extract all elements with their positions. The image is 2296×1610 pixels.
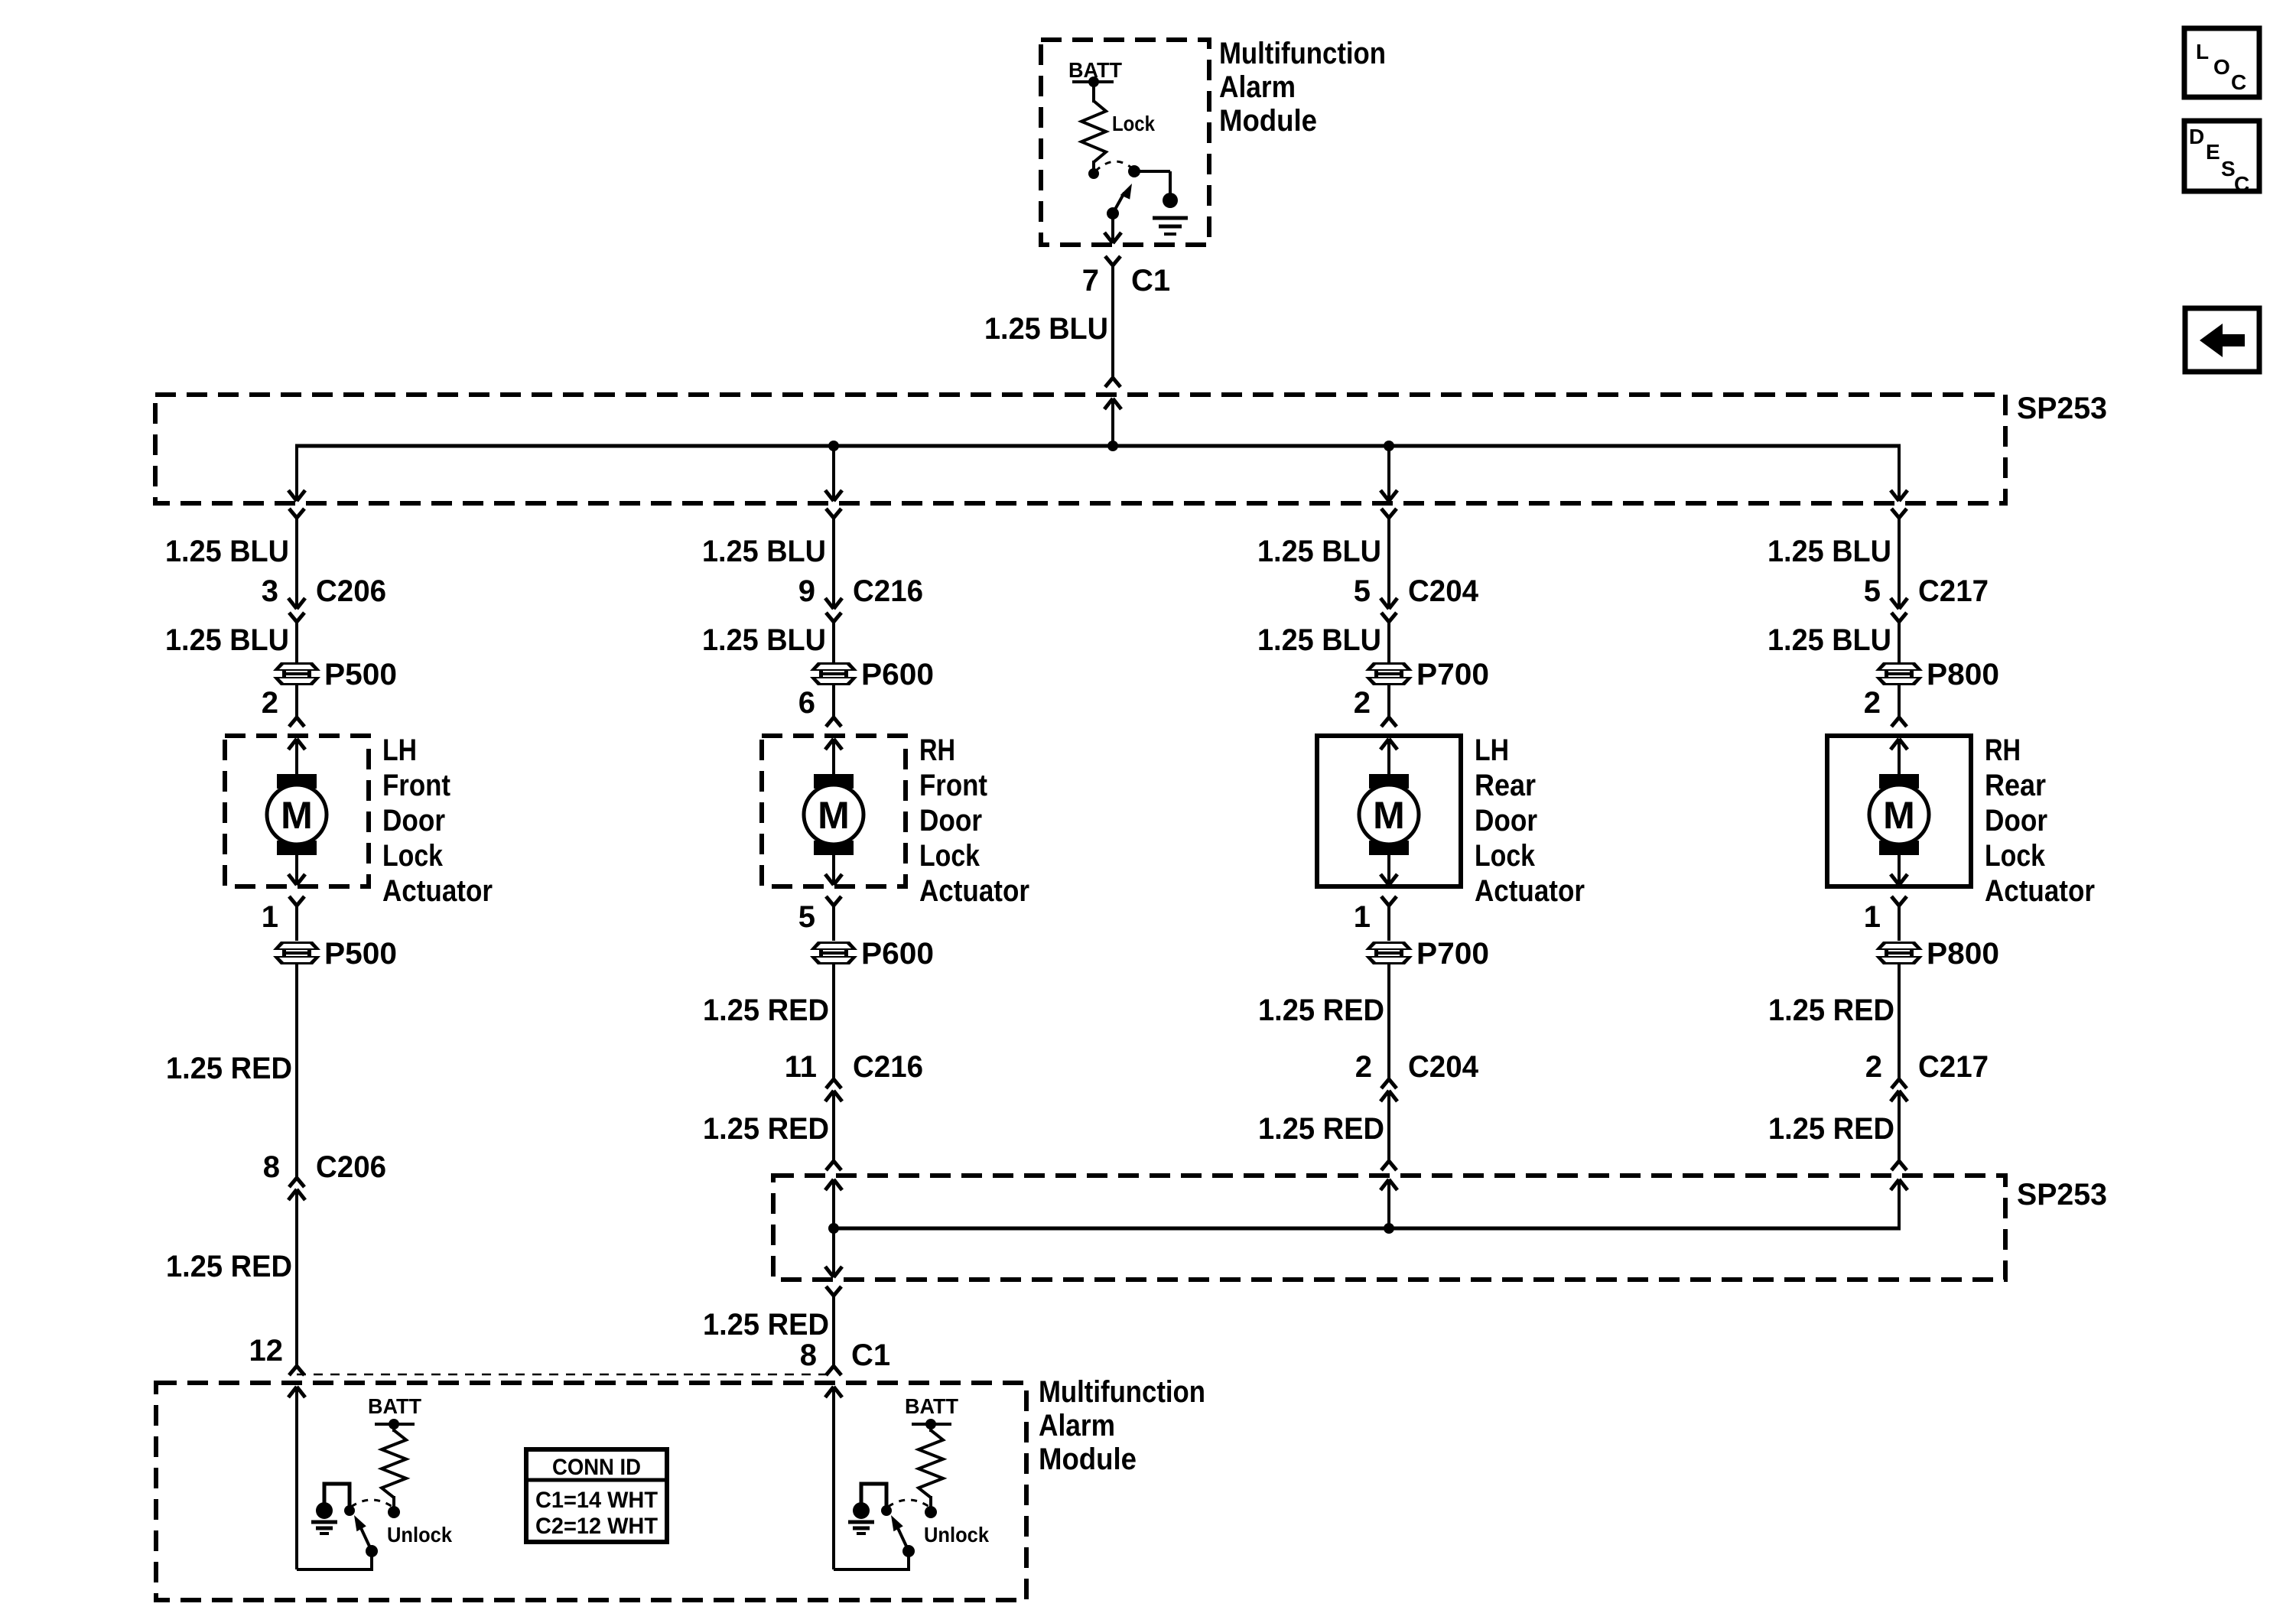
label 1.25 BLU (C217 upper) [1768,535,1891,568]
svg-text:Alarm: Alarm [1039,1409,1115,1442]
svg-text:P700: P700 [1416,658,1489,691]
svg-text:C1=14 WHT: C1=14 WHT [535,1488,658,1513]
chevron below SP253 bottom [826,1286,841,1296]
svg-text:P600: P600 [861,937,934,971]
wire 1.25 RED (C206 upper) [295,964,298,1178]
label 1.25 RED (C204 upper) [1258,994,1384,1027]
wire: top bus to exit (C216 branch) [832,446,835,501]
chevron below SP253 (C216 branch) [826,509,841,518]
wire to door lock actuator (P600) [832,685,835,717]
junction on bottom bus (C204) [1384,1223,1394,1234]
inline connector C206 pin 3 [262,574,386,622]
pin label 2 (motor top) [1864,686,1881,720]
svg-text:1.25 RED: 1.25 RED [1768,994,1894,1027]
chevron into actuator box (P700) [1381,717,1397,727]
inline connector C204 pin 5 [1354,574,1479,622]
pin label 1 (motor bottom) [1354,900,1371,934]
arrow inside actuator box top (P500) [288,739,305,776]
chevron below actuator box (P700) [1381,896,1397,906]
svg-text:P800: P800 [1927,658,1999,691]
svg-text:Actuator: Actuator [382,874,493,908]
chevron into actuator box (P500) [289,717,304,727]
svg-text:1.25 BLU: 1.25 BLU [1257,623,1381,657]
svg-text:12: 12 [249,1334,284,1368]
svg-text:S: S [2221,157,2236,181]
dashed actuation link (right) [888,1500,929,1507]
wire 1.25 BLU lower (C217) [1898,622,1901,663]
chevron into bottom module (pin 8) [826,1366,841,1375]
splice box SP253 (bottom) [773,1176,2005,1280]
wire inside actuator box bottom (P500) [288,855,305,885]
wire: top bus to exit (C204 branch) [1387,446,1390,501]
label: Multifunction Alarm Module (bottom) [1039,1375,1205,1476]
label 1.25 BLU (C217 lower) [1768,623,1891,657]
wire 1.25 RED (C216 upper) [832,964,835,1079]
svg-text:1.25 RED: 1.25 RED [1768,1112,1894,1146]
svg-text:1: 1 [262,900,278,934]
CONN ID table [526,1449,667,1542]
label 1.25 BLU (C216 upper) [702,535,826,568]
arrow inside bottom module (pin 8) [825,1387,842,1569]
svg-text:Multifunction: Multifunction [1039,1375,1205,1409]
wire motor to grommet (P800) [1898,906,1901,941]
svg-text:8: 8 [263,1150,280,1184]
inline connector C216 pin 11 [785,1050,923,1101]
label SP253 (top) [2017,392,2107,425]
chevron below SP253 (C217 branch) [1891,509,1907,518]
resistor Unlock coil (right) [912,1419,951,1518]
bus wire SP253 (bottom) [832,1227,1901,1231]
svg-text:Module: Module [1219,104,1317,138]
label SP253 (bottom) [2017,1178,2107,1212]
svg-text:C204: C204 [1408,1050,1479,1084]
svg-text:6: 6 [798,686,815,720]
grommet P500 (lower) [273,937,397,971]
label 1.25 RED (C216 lower) [703,1112,829,1146]
svg-text:Lock: Lock [919,839,981,873]
chevron into bottom module (pin 12) [289,1366,304,1375]
wire 1.25 BLU lower (C206) [295,622,298,663]
svg-text:E: E [2206,140,2220,164]
svg-text:O: O [2213,55,2230,79]
icon box back-arrow [2185,308,2259,372]
svg-text:C204: C204 [1408,574,1479,608]
label 1.25 RED (C217 upper) [1768,994,1894,1027]
label 1.25 BLU (C206 lower) [165,623,289,657]
motor M (LH Rear) [1359,774,1419,855]
svg-text:5: 5 [1354,574,1371,608]
svg-text:5: 5 [798,900,815,934]
svg-text:Lock: Lock [1985,839,2046,873]
wire 1.25 BLU upper (C206) [295,518,298,609]
svg-text:2: 2 [1354,686,1371,720]
label 1.25 BLU (C204 upper) [1257,535,1381,568]
svg-text:Unlock: Unlock [924,1523,989,1547]
svg-text:Actuator: Actuator [1985,874,2095,908]
svg-text:SP253: SP253 [2017,392,2107,425]
svg-text:C217: C217 [1918,574,1989,608]
svg-text:P500: P500 [324,658,397,691]
svg-text:Rear: Rear [1985,769,2046,802]
wire to unlock switch (right) [834,1552,909,1571]
svg-text:C1: C1 [1131,264,1170,298]
wire 1.25 RED (C206 lower) [295,1189,298,1366]
label 1.25 RED (C206 lower) [166,1250,292,1283]
arrow out of SP253 (C217 branch) [1891,490,1907,501]
svg-text:3: 3 [262,574,278,608]
svg-text:BATT: BATT [368,1394,421,1418]
svg-text:M: M [281,794,313,837]
svg-text:LH: LH [1475,733,1509,767]
svg-text:1.25 BLU: 1.25 BLU [1768,535,1891,568]
svg-text:Lock: Lock [1475,839,1536,873]
motor M (RH Front) [804,774,863,855]
pin label 1 (motor bottom) [1864,900,1881,934]
wire 1.25 BLU upper (C216) [832,518,835,609]
wire to unlock switch (left) [297,1552,372,1571]
junction on top bus at C204 branch [1384,441,1394,451]
module box: Multifunction Alarm Module (top) [1041,40,1209,245]
wire: switch to pin 7 [1111,213,1114,242]
svg-text:1.25 RED: 1.25 RED [166,1052,292,1085]
wire 1.25 RED (C217 upper) [1898,964,1901,1079]
chevron into SP253 bottom (C216) [826,1161,841,1170]
chevron into SP253 bottom (C217) [1891,1161,1907,1170]
svg-text:M: M [1373,794,1405,837]
svg-text:C: C [2234,172,2249,196]
wire to door lock actuator (P700) [1387,685,1390,717]
svg-text:2: 2 [262,686,278,720]
svg-text:Module: Module [1039,1442,1137,1476]
svg-text:2: 2 [1864,686,1881,720]
actuator box (LH Rear Door Lock Actuator) [1317,736,1461,886]
svg-text:1.25 RED: 1.25 RED [703,1308,829,1342]
arrow into SP253 bottom (C216) [825,1179,842,1228]
motor M (RH Rear) [1869,774,1929,855]
label: LH Front Door Lock Actuator [382,733,493,908]
inline connector C206 pin 8 [263,1150,386,1200]
svg-text:C216: C216 [853,1050,923,1084]
svg-text:Unlock: Unlock [387,1523,452,1547]
actuator box (RH Rear Door Lock Actuator) [1827,736,1971,886]
switch arm unlock (left) [354,1515,378,1557]
pin label 1 (motor bottom) [262,900,278,934]
junction on bottom bus (C216) [828,1223,839,1234]
svg-text:Front: Front [382,769,450,802]
svg-text:Alarm: Alarm [1219,70,1296,104]
svg-text:Actuator: Actuator [919,874,1029,908]
label: RH Front Door Lock Actuator [919,733,1029,908]
svg-text:C216: C216 [853,574,923,608]
icon box LOC [2184,28,2259,97]
ground (left bottom module) [311,1502,337,1534]
svg-text:11: 11 [785,1050,817,1084]
arrow into SP253 bottom (C204) [1381,1179,1397,1228]
wire: top bus corner to exit (C217 branch) [1898,446,1901,501]
icon box DESC [2184,121,2259,196]
junction on top bus at C216 branch [828,441,839,451]
svg-text:LH: LH [382,733,417,767]
svg-text:1.25 RED: 1.25 RED [1258,1112,1384,1146]
grommet P800 (lower) [1875,937,1999,971]
svg-text:C: C [2231,70,2246,94]
svg-text:RH: RH [919,733,955,767]
wire 1.25 RED (C204 to splice) [1387,1091,1390,1161]
svg-text:P500: P500 [324,937,397,971]
label 1.25 BLU (C216 lower) [702,623,826,657]
svg-text:P600: P600 [861,658,934,691]
svg-text:Multifunction: Multifunction [1219,37,1386,70]
grommet P600 (lower) [810,937,934,971]
svg-text:C206: C206 [316,1150,386,1184]
svg-text:1.25 BLU: 1.25 BLU [165,623,289,657]
wire 1.25 BLU upper (C204) [1387,518,1390,609]
contact bracket (right) [861,1484,886,1507]
grommet P600 (upper) [810,658,934,691]
inline connector C217 pin 2 [1865,1050,1989,1101]
splice box SP253 (top) [155,395,2005,503]
svg-text:1.25 BLU: 1.25 BLU [984,312,1108,346]
wire to door lock actuator (P500) [295,685,298,717]
inline connector C216 pin 9 [798,574,923,622]
svg-text:1.25 RED: 1.25 RED [703,1112,829,1146]
contact bracket (left) [324,1484,350,1507]
label: RH Rear Door Lock Actuator [1985,733,2095,908]
chevron below actuator box (P600) [826,896,841,906]
svg-text:1: 1 [1864,900,1881,934]
wire motor to grommet (P600) [832,906,835,941]
grommet P500 (upper) [273,658,397,691]
wire 1.25 RED (C216 to splice) [832,1091,835,1161]
arrow into SP253 bottom (C217) [1891,1179,1907,1228]
svg-text:Lock: Lock [1112,112,1155,135]
arrow inside actuator box top (P600) [825,739,842,776]
pin 7 C1 boundary arrow [1104,233,1121,243]
grommet P700 (upper) [1365,658,1489,691]
arrow inside actuator box top (P800) [1891,739,1907,776]
connector chevron below module (pin 7) [1105,256,1120,265]
resistor Lock coil [1081,82,1106,179]
svg-text:8: 8 [800,1338,817,1372]
power tap BATT (left bottom module) [368,1394,421,1418]
chevron into actuator box (P800) [1891,717,1907,727]
label 1.25 BLU (C206 upper) [165,535,289,568]
label: LH Rear Door Lock Actuator [1475,733,1585,908]
svg-text:Door: Door [919,804,982,838]
label 1.25 RED (splice to module) [703,1308,829,1342]
svg-text:1.25 BLU: 1.25 BLU [702,535,826,568]
svg-text:CONN ID: CONN ID [552,1455,641,1480]
label Unlock (left) [387,1523,452,1547]
wire 1.25 RED (C204 upper) [1387,964,1390,1079]
label 1.25 RED (C216 upper) [703,994,829,1027]
pin label 6 (motor top) [798,686,815,720]
resistor Unlock coil (left) [375,1419,415,1518]
dashed actuation link (left) [351,1500,392,1507]
actuator box (LH Front Door Lock Actuator) [225,736,369,886]
svg-text:2: 2 [1355,1050,1372,1084]
wire to door lock actuator (P800) [1898,685,1901,717]
bus wire SP253 (top) [295,444,1901,448]
svg-text:Front: Front [919,769,987,802]
svg-text:Actuator: Actuator [1475,874,1585,908]
label: Multifunction Alarm Module (top) [1219,37,1386,138]
switch arm (top module) [1107,184,1132,220]
svg-text:D: D [2189,125,2204,148]
svg-text:C206: C206 [316,574,386,608]
power tap BATT (right bottom module) [905,1394,958,1418]
label Lock [1112,112,1155,135]
chevron into actuator box (P600) [826,717,841,727]
svg-text:1.25 BLU: 1.25 BLU [1768,623,1891,657]
arrow inside bottom module (pin 12) [288,1387,305,1569]
svg-text:Door: Door [1985,804,2047,838]
arrow inside actuator box top (P700) [1381,739,1397,776]
dashed actuation link (top module) [1095,161,1131,171]
inline connector C217 pin 5 [1864,574,1989,622]
chevron into SP253 bottom (C204) [1381,1161,1397,1170]
svg-text:1.25 RED: 1.25 RED [1258,994,1384,1027]
svg-text:Door: Door [382,804,445,838]
svg-text:1.25 BLU: 1.25 BLU [1257,535,1381,568]
chevron into SP253 (center) [1105,378,1120,387]
svg-text:SP253: SP253 [2017,1178,2107,1212]
arrow into SP253 bus (center) [1104,398,1121,446]
svg-text:9: 9 [798,574,815,608]
wire 1.25 BLU (module to SP253) [1111,265,1114,378]
wire 1.25 RED (splice to module) [832,1296,835,1366]
svg-text:1.25 BLU: 1.25 BLU [702,623,826,657]
svg-text:P700: P700 [1416,937,1489,971]
svg-text:1.25 RED: 1.25 RED [703,994,829,1027]
svg-text:1.25 BLU: 1.25 BLU [165,535,289,568]
label 1.25 RED (C204 lower) [1258,1112,1384,1146]
power tap BATT (top module) [1068,58,1122,87]
wire: top bus corner to exit (C206 branch) [295,446,298,501]
svg-text:C217: C217 [1918,1050,1989,1084]
switch contact (left) [344,1505,355,1516]
pin label 5 (motor bottom) [798,900,815,934]
grommet P700 (lower) [1365,937,1489,971]
module box: Multifunction Alarm Module (bottom) [156,1383,1026,1600]
chevron below SP253 (C204 branch) [1381,509,1397,518]
svg-text:Lock: Lock [382,839,444,873]
svg-text:C2=12 WHT: C2=12 WHT [535,1514,658,1539]
svg-text:C1: C1 [851,1338,890,1372]
svg-text:RH: RH [1985,733,2021,767]
chevron below SP253 (C206 branch) [289,509,304,518]
grommet P800 (upper) [1875,658,1999,691]
label 1.25 RED (C206 upper) [166,1052,292,1085]
wire 1.25 BLU lower (C204) [1387,622,1390,663]
svg-text:Rear: Rear [1475,769,1536,802]
svg-text:BATT: BATT [905,1394,958,1418]
arrow out of SP253 (C204 branch) [1381,490,1397,501]
label 1.25 RED (C217 lower) [1768,1112,1894,1146]
svg-text:L: L [2196,40,2209,63]
chevron below actuator box (P800) [1891,896,1907,906]
wire 1.25 RED (C217 to splice) [1898,1091,1901,1161]
switch contact (right) [881,1505,892,1516]
pin label 12 (bottom module) [249,1334,284,1368]
junction on top bus center [1107,441,1118,451]
svg-text:7: 7 [1082,264,1099,298]
wire inside actuator box bottom (P600) [825,855,842,885]
label Unlock (right) [924,1523,989,1547]
svg-text:M: M [818,794,850,837]
wire 1.25 BLU upper (C217) [1898,518,1901,609]
wire inside actuator box bottom (P700) [1381,855,1397,885]
svg-text:5: 5 [1864,574,1881,608]
actuator box (RH Front Door Lock Actuator) [762,736,906,886]
wire motor to grommet (P500) [295,906,298,941]
chevron below actuator box (P500) [289,896,304,906]
wire inside actuator box bottom (P800) [1891,855,1907,885]
wire motor to grommet (P700) [1387,906,1390,941]
ground (right bottom module) [848,1502,874,1534]
arrow out of SP253 (C216 branch) [825,490,842,501]
svg-text:1.25 RED: 1.25 RED [166,1250,292,1283]
wire 1.25 BLU lower (C216) [832,622,835,663]
pin label 7 / C1 [1082,264,1170,298]
svg-text:M: M [1883,794,1915,837]
label 1.25 BLU (center) [984,312,1108,346]
pin label 2 (motor top) [262,686,278,720]
label 1.25 BLU (C204 lower) [1257,623,1381,657]
motor M (LH Front) [267,774,327,855]
arrow out of SP253 (C206 branch) [288,490,305,501]
svg-text:2: 2 [1865,1050,1882,1084]
wire out of bottom splice [825,1228,842,1277]
pin label 2 (motor top) [1354,686,1371,720]
switch arm unlock (right) [891,1515,915,1557]
svg-text:P800: P800 [1927,937,1999,971]
inline connector C204 pin 2 [1355,1050,1479,1101]
pin label 8 / C1 (bottom module) [800,1338,890,1372]
switch lock contact (top module) [1128,165,1170,194]
svg-text:1: 1 [1354,900,1371,934]
connector row line C1 (thin dashed) [297,1374,834,1376]
ground (top module) [1153,193,1188,234]
svg-text:Door: Door [1475,804,1537,838]
